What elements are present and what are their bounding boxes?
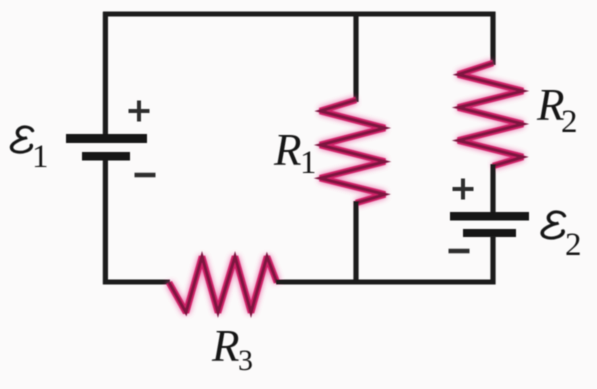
- label R1: [273, 125, 317, 181]
- battery E2 plus sign: [453, 179, 474, 200]
- wire middle upper: R1 top lead from top net junction: [353, 12, 358, 102]
- battery E2 minus sign: [449, 249, 470, 254]
- battery E1: [66, 134, 147, 161]
- resistor R1: [320, 100, 385, 203]
- resistor R3: [169, 257, 277, 313]
- svg-text:R: R: [211, 321, 240, 371]
- svg-text:3: 3: [238, 344, 253, 377]
- battery E2: [450, 212, 529, 237]
- wire right middle: R2 bottom to E2 positive plate: [490, 164, 495, 215]
- wire bottom left: E1- to R3: [103, 280, 170, 285]
- label R3: [211, 321, 253, 377]
- wire bottom right: R3 to E2- with junction at middle branch: [276, 280, 496, 285]
- svg-text:1: 1: [32, 139, 49, 175]
- svg-text:2: 2: [565, 227, 582, 263]
- resistor R2: [458, 63, 523, 166]
- label R2: [536, 80, 578, 140]
- wire left lower: E1 negative lead: [103, 160, 108, 284]
- svg-text:R: R: [273, 125, 302, 175]
- wire top net: E1+ to R2 top with junction at middle branch: [103, 12, 496, 17]
- wire left upper: E1 positive lead: [103, 12, 108, 137]
- label E2 (script capital E): [542, 212, 581, 263]
- svg-text:1: 1: [300, 145, 317, 181]
- wire right upper: R2 top lead: [490, 12, 495, 65]
- label E1 (script capital E): [12, 127, 49, 175]
- svg-text:2: 2: [561, 104, 578, 140]
- wire middle lower: R1 bottom lead to bottom net junction: [353, 201, 358, 284]
- battery E1 minus sign: [135, 173, 156, 178]
- battery E1 plus sign: [129, 101, 150, 122]
- wire right lower: E2 negative lead to bottom net: [490, 236, 495, 284]
